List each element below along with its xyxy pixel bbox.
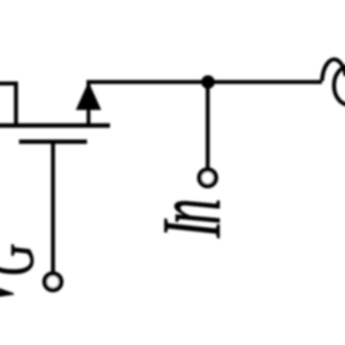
- channel bar of M1: [0, 123, 110, 128]
- node junction dot: [201, 75, 215, 89]
- wire drain terminal top-left: [0, 84, 16, 127]
- svg-text:n: n: [135, 198, 240, 224]
- source arrowhead of M1: [77, 83, 101, 110]
- wire In stub: [206, 82, 210, 168]
- source arrow stem of M1: [87, 100, 91, 126]
- svg-text:VG: VG: [0, 243, 50, 308]
- gate bar of M1: [19, 139, 87, 143]
- wire top rail: [89, 82, 323, 92]
- terminal In (open circle): [199, 170, 215, 186]
- inductor L1 (cropped at right edge): [322, 59, 345, 81]
- wire gate stub: [51, 142, 55, 273]
- terminal VG (open circle): [45, 274, 61, 290]
